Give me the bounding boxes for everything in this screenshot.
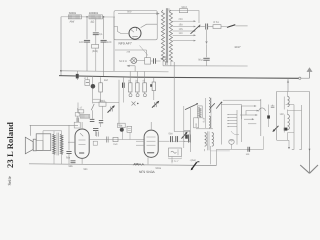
svg-text:531: 531	[84, 168, 89, 171]
svg-text:100: 100	[107, 41, 112, 44]
svg-text:1017: 1017	[234, 45, 241, 49]
svg-text:(50п): (50п)	[92, 50, 98, 53]
svg-text:0,10: 0,10	[203, 117, 206, 122]
svg-text:50n: 50n	[66, 157, 71, 160]
svg-text:150: 150	[113, 143, 118, 146]
svg-text:5012: 5012	[182, 6, 188, 9]
svg-text:0,1: 0,1	[99, 33, 103, 36]
svg-text:500: 500	[127, 10, 132, 13]
svg-text:5ΩΩ1: 5ΩΩ1	[69, 11, 77, 15]
svg-text:125: 125	[179, 28, 184, 31]
svg-text:+(Ge): +(Ge)	[190, 159, 197, 162]
svg-text:110: 110	[179, 32, 184, 35]
svg-text:150: 150	[179, 23, 184, 26]
svg-text:ΔΩ: ΔΩ	[91, 21, 95, 24]
svg-text:C 7c 7: C 7c 7	[172, 160, 180, 163]
svg-text:220: 220	[179, 18, 184, 21]
svg-text:1ΩΩΩ1: 1ΩΩΩ1	[89, 11, 99, 15]
svg-text:Seite: Seite	[7, 176, 13, 185]
svg-text:500: 500	[169, 133, 174, 136]
svg-text:NF9 SN3A: NF9 SN3A	[139, 170, 156, 174]
svg-text:100: 100	[79, 41, 84, 44]
svg-text:NF9 D: NF9 D	[119, 59, 127, 63]
svg-text:ΛΜ/: ΛΜ/	[70, 21, 75, 24]
svg-text:50µ: 50µ	[198, 58, 203, 61]
svg-text:53b: 53b	[69, 165, 74, 168]
svg-text:23 L Roland: 23 L Roland	[5, 122, 15, 168]
svg-text:400/1: 400/1	[99, 99, 105, 102]
svg-text:1M: 1M	[104, 79, 108, 82]
svg-text:999: 999	[134, 162, 139, 166]
svg-text:R 51: R 51	[214, 21, 220, 24]
svg-text:500a: 500a	[156, 167, 162, 170]
svg-text:NF9 АF7: NF9 АF7	[119, 42, 132, 46]
svg-text:10C: 10C	[280, 113, 285, 116]
